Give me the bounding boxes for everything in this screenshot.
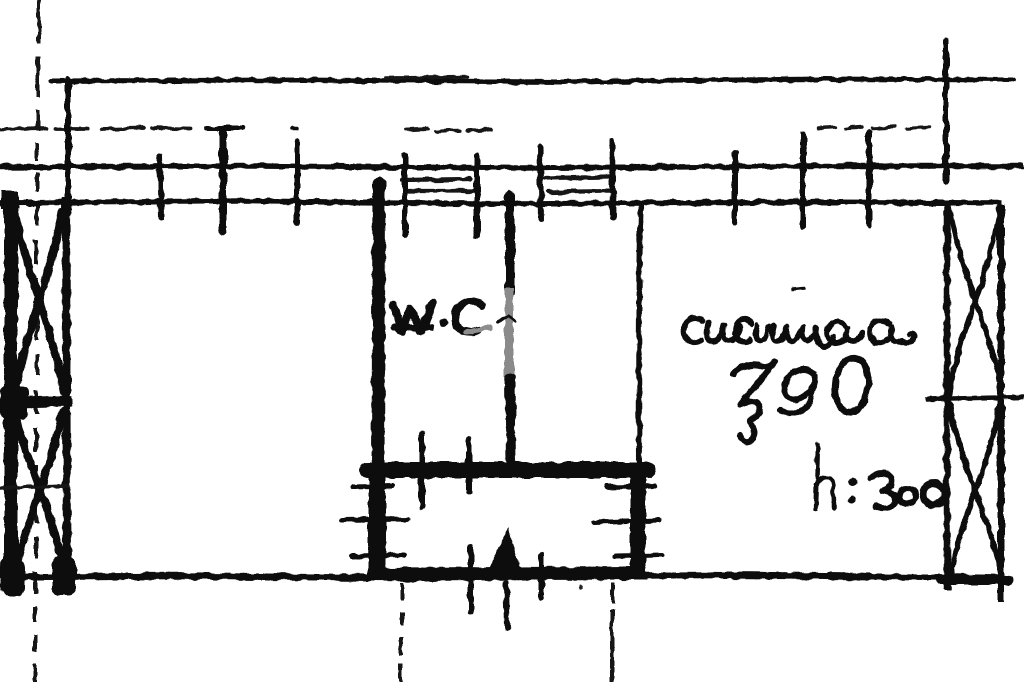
left wall divider blob <box>0 386 28 419</box>
top balcony line H1 <box>51 79 1014 82</box>
interior wall V1 (w.c. left) <box>378 184 379 470</box>
building south wall <box>0 575 1006 578</box>
left wall X brace upper <box>14 212 64 394</box>
text 390 digit 9 <box>780 370 815 414</box>
text w.c. grey tail <box>466 328 490 332</box>
speck below south wall <box>579 585 583 589</box>
right wall X brace upper <box>949 206 1001 396</box>
window symbol W1 (double lines) <box>402 179 477 191</box>
right wall divider tick y398 <box>925 397 1024 399</box>
left wall inner edge <box>66 198 67 580</box>
dash dot x294 <box>291 127 297 131</box>
left wall mid tick line y487 <box>0 486 70 488</box>
tick below wall x541 <box>538 555 544 597</box>
railing tick x297 <box>294 142 300 222</box>
left wall outer edge <box>4 196 18 585</box>
text h:300 second 0 <box>923 483 945 505</box>
outer wall line H4 <box>0 201 1002 204</box>
stair arrow triangle <box>488 530 520 575</box>
balcony south thick wall <box>372 573 646 574</box>
left wall divider bar <box>0 401 72 403</box>
right wall outer edge <box>998 204 1005 601</box>
interior wall V2 lower <box>510 378 511 464</box>
right wall bottom bar <box>941 575 1008 585</box>
right wall X brace lower <box>949 402 1001 580</box>
left wall top corner blob <box>1 191 19 209</box>
dashed line H2 left segments <box>0 128 190 129</box>
left wall bottom blob right <box>52 556 76 596</box>
interior wall V3 (cucina left) <box>639 201 641 576</box>
window symbol W2 (double lines) <box>545 177 615 192</box>
balcony east thick wall <box>631 467 646 575</box>
text h:300 h glyph <box>816 444 834 509</box>
tick crossing w.c. wall x469 <box>466 440 472 492</box>
text cucina (cursive) <box>684 318 915 346</box>
text 390 digit 0 <box>835 358 868 412</box>
railing tick x612 <box>612 140 613 217</box>
railing tick x405 <box>402 154 408 236</box>
text h:300 colon <box>848 478 857 504</box>
outer wall line H3 <box>0 166 1024 168</box>
tall corner tick x946 <box>943 41 949 182</box>
small dash above cucina <box>794 288 803 289</box>
left wall X brace lower <box>14 412 64 572</box>
tick below wall x471 <box>468 546 474 612</box>
balcony east ticks <box>594 486 662 556</box>
tick crossing w.c. wall x422 <box>419 434 425 507</box>
balcony west thick wall <box>368 462 386 578</box>
interior wall V2 (w.c. right) upper <box>505 195 515 292</box>
interior wall V2 grey segment <box>505 288 514 380</box>
railing tick x735 <box>732 152 738 223</box>
railing tick x223 (thick with cap) <box>206 128 242 231</box>
text w.c. first period <box>440 319 449 328</box>
text w.c. w glyph <box>394 303 433 331</box>
dashed line H2 right segments <box>818 127 928 128</box>
right wall inner edge <box>944 200 951 589</box>
tick below wall x506 <box>506 583 507 628</box>
top balcony line H1 overlap stroke <box>386 77 468 78</box>
railing tick x540 <box>540 147 541 220</box>
solid stub below balcony x612 <box>612 583 613 682</box>
dashed property line (left vertical) <box>35 0 39 682</box>
corner post tick x68 <box>65 79 71 209</box>
text h:300 first o <box>899 488 915 504</box>
railing tick x803 <box>800 134 806 226</box>
balcony west ticks <box>341 486 408 556</box>
text w.c. c glyph <box>455 301 482 331</box>
railing tick x160 <box>160 155 161 218</box>
railing tick x869 <box>866 132 872 225</box>
w.c. south thick wall <box>368 462 648 478</box>
dashed line H2 centre segments <box>406 129 490 131</box>
chevron mark on V2 <box>498 315 516 322</box>
text h:300 digit 3 <box>871 473 895 508</box>
dashed stub below balcony x403 <box>400 583 403 682</box>
railing tick x477 <box>474 156 480 236</box>
text 390 digit 3 <box>734 362 775 441</box>
left wall bottom blob left <box>0 560 25 596</box>
